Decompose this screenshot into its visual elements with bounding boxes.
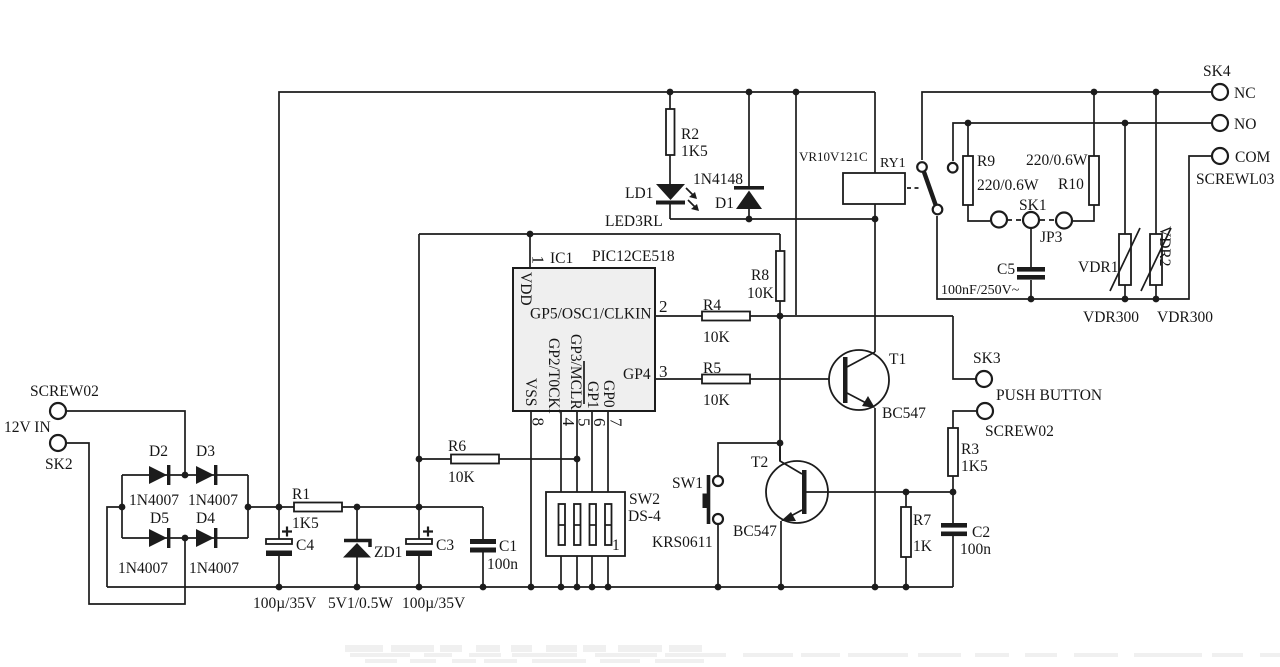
SW2 element 2: [574, 504, 581, 545]
svg-text:PIC12CE518: PIC12CE518: [592, 248, 675, 265]
svg-text:SCREWL03: SCREWL03: [1196, 171, 1275, 188]
svg-text:ZD1: ZD1: [374, 544, 402, 561]
svg-text:7: 7: [607, 418, 626, 427]
resistor R10: [1093, 92, 1095, 156]
resistor R6: [419, 458, 577, 460]
wire +12V top rail: [279, 92, 875, 507]
svg-text:VDR300: VDR300: [1083, 309, 1139, 326]
node R4/R8: [777, 313, 784, 320]
svg-text:5V1/0.5W: 5V1/0.5W: [328, 595, 393, 612]
svg-text:GP3/MCLR: GP3/MCLR: [567, 334, 584, 410]
svg-text:R4: R4: [703, 297, 721, 314]
svg-text:1N4007: 1N4007: [188, 492, 238, 509]
wire T2 base line: [806, 491, 953, 493]
svg-text:100µ/35V: 100µ/35V: [402, 595, 466, 612]
faint scan artifact row: [345, 645, 1280, 663]
connector SK2 terminal 1: [50, 403, 66, 419]
svg-text:VDD: VDD: [517, 272, 534, 306]
LED LD1: [656, 184, 685, 200]
svg-text:D3: D3: [196, 443, 215, 460]
svg-text:SK3: SK3: [973, 350, 1001, 367]
resistor R2: [669, 92, 671, 109]
svg-text:8: 8: [529, 418, 548, 427]
node C3: [416, 504, 423, 511]
svg-text:C3: C3: [436, 537, 454, 554]
svg-text:1N4007: 1N4007: [118, 560, 168, 577]
switch SW2 DIP body: [546, 492, 625, 556]
SW2 element 3: [590, 504, 597, 545]
wire input 2: [66, 443, 185, 604]
resistor R1: [294, 503, 342, 512]
varistor VDR1: [1124, 123, 1126, 234]
svg-text:R3: R3: [961, 441, 979, 458]
svg-text:SK4: SK4: [1203, 63, 1231, 80]
node ZD1: [354, 504, 361, 511]
node bridge top: [182, 472, 189, 479]
relay contact blade: [907, 187, 922, 189]
svg-text:220/0.6W: 220/0.6W: [1026, 152, 1088, 169]
svg-text:C2: C2: [972, 524, 990, 541]
svg-text:VR10V121C: VR10V121C: [799, 149, 868, 164]
svg-text:1: 1: [529, 256, 548, 265]
svg-text:R8: R8: [751, 267, 769, 284]
svg-text:D4: D4: [196, 510, 215, 527]
connector SK2 terminal 2: [50, 435, 66, 451]
svg-text:2: 2: [659, 297, 668, 316]
diode D5: [149, 529, 167, 547]
svg-text:R7: R7: [913, 512, 931, 529]
connector SK3 terminal: [976, 371, 992, 387]
terminal COM: [1212, 148, 1228, 164]
SW2 bottom stubs: [561, 556, 608, 587]
svg-text:100n: 100n: [487, 556, 518, 573]
svg-text:JP3: JP3: [1040, 229, 1063, 246]
node bridge minus: [119, 504, 126, 511]
svg-text:R10: R10: [1058, 176, 1084, 193]
diode D3: [196, 466, 214, 484]
svg-text:C1: C1: [499, 538, 517, 555]
svg-text:10K: 10K: [703, 392, 731, 409]
wire VDD rail: [419, 233, 780, 235]
resistor R3: [948, 428, 958, 476]
svg-text:KRS0611: KRS0611: [652, 534, 713, 551]
svg-text:BC547: BC547: [882, 405, 926, 422]
svg-text:R6: R6: [448, 438, 466, 455]
svg-text:12V IN: 12V IN: [4, 419, 51, 436]
node bridge plus: [245, 504, 252, 511]
pin 1 stub VDD: [529, 234, 531, 268]
svg-text:220/0.6W: 220/0.6W: [977, 177, 1039, 194]
svg-text:1K5: 1K5: [961, 458, 988, 475]
node IC pin1: [527, 231, 534, 238]
wire NO line: [953, 123, 1212, 161]
svg-text:NC: NC: [1234, 85, 1256, 102]
transistor T2: [766, 461, 828, 523]
svg-text:100µ/35V: 100µ/35V: [253, 595, 317, 612]
svg-text:SW1: SW1: [672, 475, 703, 492]
resistor R8: [779, 234, 781, 251]
node R6: [416, 456, 423, 463]
wire NC line: [922, 92, 1212, 160]
resistor R7: [905, 492, 907, 507]
capacitor C4: [278, 507, 280, 587]
node R6 to GP2: [574, 456, 581, 463]
svg-text:IC1: IC1: [550, 250, 573, 267]
svg-text:1N4007: 1N4007: [129, 492, 179, 509]
ground rail: [107, 586, 953, 588]
capacitor C2: [952, 492, 954, 587]
svg-text:BC547: BC547: [733, 523, 777, 540]
node SK3 branch: [793, 89, 800, 96]
node bridge bottom: [182, 535, 189, 542]
svg-text:VDR300: VDR300: [1157, 309, 1213, 326]
wire +V mid rail: [248, 506, 483, 508]
svg-text:GP5/OSC1/CLKIN: GP5/OSC1/CLKIN: [530, 306, 651, 323]
svg-text:R9: R9: [977, 153, 995, 170]
wire bridge minus to ground: [107, 507, 122, 587]
diode D4: [196, 529, 214, 547]
SW2 element 1: [559, 504, 566, 545]
capacitor C3: [418, 507, 420, 587]
svg-text:DS-4: DS-4: [628, 508, 661, 525]
svg-text:COM: COM: [1235, 149, 1271, 166]
transistor T1: [829, 350, 889, 410]
svg-text:100nF/250V~: 100nF/250V~: [941, 283, 1020, 298]
svg-text:C4: C4: [296, 537, 314, 554]
terminal NC: [1212, 84, 1228, 100]
svg-text:LED3RL: LED3RL: [605, 213, 663, 230]
wire +5V column: [418, 234, 420, 507]
capacitor C5: [1030, 229, 1032, 267]
svg-text:1N4148: 1N4148: [693, 171, 743, 188]
svg-text:1K: 1K: [913, 538, 933, 555]
wire LED/D1 bottom: [670, 218, 875, 220]
node R2 top: [667, 89, 674, 96]
diode D2: [149, 466, 167, 484]
wire T1 collector riser: [874, 219, 876, 352]
svg-text:VSS: VSS: [522, 378, 539, 406]
svg-text:T1: T1: [889, 351, 906, 368]
node C4: [276, 504, 283, 511]
capacitor C1: [482, 507, 484, 587]
SW2 element 4: [605, 504, 612, 545]
svg-text:D1: D1: [715, 195, 734, 212]
svg-text:1: 1: [612, 537, 620, 554]
svg-text:1N4007: 1N4007: [189, 560, 239, 577]
zener ZD1: [356, 507, 358, 587]
wire R4 node down to T2 collector: [779, 316, 781, 461]
svg-text:D5: D5: [150, 510, 169, 527]
svg-text:SK2: SK2: [45, 456, 73, 473]
svg-text:VDR2: VDR2: [1156, 226, 1173, 266]
wire SK3 feed: [795, 92, 797, 315]
svg-text:6: 6: [590, 418, 609, 427]
svg-text:NO: NO: [1234, 116, 1256, 133]
wire COM / contact common bottom: [937, 156, 1212, 299]
svg-text:LD1: LD1: [625, 185, 653, 202]
wire input 1: [66, 411, 185, 475]
svg-text:T2: T2: [751, 454, 768, 471]
svg-text:SCREW02: SCREW02: [985, 423, 1054, 440]
svg-text:C5: C5: [997, 261, 1015, 278]
svg-text:10K: 10K: [448, 469, 476, 486]
svg-text:R2: R2: [681, 126, 699, 143]
svg-text:1K5: 1K5: [681, 143, 708, 160]
resistor R5: [702, 375, 750, 384]
svg-text:VDR1: VDR1: [1078, 259, 1118, 276]
svg-text:R1: R1: [292, 486, 310, 503]
svg-text:10K: 10K: [703, 329, 731, 346]
connector SCREW02 terminal: [977, 403, 993, 419]
svg-text:D2: D2: [149, 443, 168, 460]
svg-text:100n: 100n: [960, 541, 991, 558]
svg-text:RY1: RY1: [880, 156, 906, 171]
relay coil RY1: [874, 92, 876, 173]
svg-text:SW2: SW2: [629, 491, 660, 508]
svg-text:GP4: GP4: [623, 366, 651, 383]
varistor VDR2: [1155, 92, 1157, 234]
svg-text:10K: 10K: [747, 285, 775, 302]
svg-text:GP2/T0CKI: GP2/T0CKI: [545, 338, 562, 414]
svg-text:GP1: GP1: [584, 381, 601, 409]
resistor R4: [702, 312, 750, 321]
resistor R9: [967, 123, 969, 156]
svg-text:PUSH BUTTON: PUSH BUTTON: [996, 387, 1102, 404]
wire bridge frame: [122, 475, 248, 538]
node D1 top: [746, 89, 753, 96]
svg-text:R5: R5: [703, 360, 721, 377]
terminal NO: [1212, 115, 1228, 131]
svg-text:1K5: 1K5: [292, 515, 319, 532]
svg-text:SCREW02: SCREW02: [30, 383, 99, 400]
diode D1: [748, 92, 750, 187]
op-amp IC1 PIC12CE518 body: [513, 268, 655, 411]
svg-text:GP0: GP0: [600, 380, 617, 408]
